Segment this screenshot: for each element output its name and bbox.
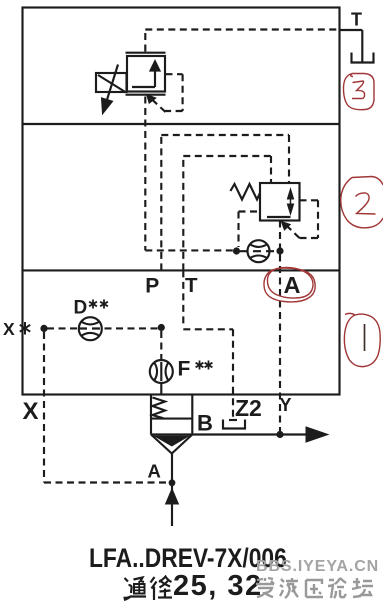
wire: T line to Z2 (dashed) [183, 270, 233, 419]
stars of D [89, 300, 108, 309]
orifice F [150, 360, 173, 383]
A flow arrow (up) [165, 488, 179, 505]
red annotation: circle around A [264, 267, 315, 302]
orifice between N1 and N2 [240, 240, 277, 262]
pilot relief valve V3 body [126, 53, 166, 95]
svg-text:A: A [148, 460, 161, 481]
wire: X drain to A (dashed) [44, 332, 168, 483]
svg-text:A: A [284, 272, 301, 298]
port T line [340, 30, 363, 62]
V3 drain loop (dashed) [152, 74, 183, 112]
wire: X to P node (dashed) [47, 327, 158, 329]
V2 drain arrowhead [281, 221, 292, 231]
poppet element (filled) [153, 436, 190, 447]
main poppet spring [153, 398, 166, 419]
valve V3 flow arrow [132, 62, 159, 88]
proportional solenoid of V3 [96, 73, 127, 92]
red annotation: oval 1 [344, 313, 380, 366]
pilot relief valve V2 body [260, 183, 300, 221]
svg-text:T: T [351, 10, 362, 30]
svg-text:P: P [145, 275, 159, 298]
svg-text:X: X [3, 319, 15, 339]
valve V2 spring [230, 184, 260, 200]
valve V2 double arrow [267, 187, 294, 217]
svg-text:X: X [23, 398, 39, 425]
node N1 [233, 247, 240, 254]
wire: V3 bottom to node N1 (dashed) [145, 97, 233, 251]
wire: A sense line down (dashed) [279, 255, 281, 432]
wire: A port line [171, 454, 173, 527]
V2 spring chamber line (dashed) [239, 212, 261, 248]
section divider (2/1) [23, 269, 340, 271]
node A [169, 479, 176, 486]
port X marker [20, 322, 30, 335]
node X [40, 325, 47, 332]
watermark BBS.IYEYA.CN [256, 558, 379, 576]
node P1 [158, 324, 165, 331]
node Y [276, 431, 283, 438]
port Z2 plug [223, 420, 245, 429]
wire: T pilot line (dashed) [183, 156, 271, 270]
watermark CJK 爱液压论坛 [255, 576, 375, 600]
caption line 2 digits [173, 570, 263, 603]
caption CJK 通径 [121, 575, 173, 601]
wire: V2 bottom to node N2 (dashed) [279, 221, 281, 248]
red annotation: circle 2 [341, 177, 383, 228]
orifice D [79, 317, 102, 340]
V3 drain arrowhead [146, 94, 157, 105]
V3 pilot line to tank (dashed) [145, 30, 339, 52]
red annotation: circle 3 [343, 74, 374, 110]
svg-text:Z2: Z2 [235, 395, 262, 421]
caption line 1 [89, 543, 287, 574]
solenoid adjustment arrow [102, 65, 118, 113]
svg-text:Y: Y [280, 395, 292, 415]
wire: B outlet line with flow arrow [151, 426, 330, 442]
V2 drain loop (dashed) [288, 200, 318, 238]
poppet seat [151, 435, 192, 454]
svg-text:F: F [178, 358, 191, 381]
svg-text:D: D [74, 298, 88, 319]
tank symbol [352, 53, 374, 63]
wire: P pilot line (dashed) [161, 135, 289, 270]
svg-text:T: T [185, 274, 198, 297]
main poppet cartridge body [151, 395, 192, 435]
section divider (3/2) [23, 123, 340, 125]
wire: P line through orifice F (dashed then solid) [160, 331, 162, 395]
svg-text:B: B [197, 410, 213, 435]
stars of F [196, 361, 213, 370]
node N2 [276, 247, 283, 254]
housing outer box [23, 8, 340, 395]
